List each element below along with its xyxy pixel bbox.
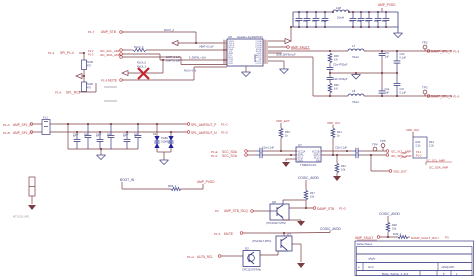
- svg-text:SDA2: SDA2: [313, 154, 320, 157]
- svg-text:C2d: C2d: [400, 52, 405, 56]
- svg-text:R48: R48: [392, 223, 397, 227]
- svg-text:TP5: TP5: [380, 139, 386, 143]
- svg-text:P1-B: P1-B: [3, 131, 10, 135]
- svg-text:VDD_3v3: VDD_3v3: [406, 128, 419, 132]
- svg-text:2.2k: 2.2k: [416, 144, 422, 148]
- svg-text:R46: R46: [334, 83, 339, 87]
- svg-text:C34: C34: [365, 19, 370, 23]
- svg-text:SPI_P1-4: SPI_P1-4: [60, 51, 74, 55]
- svg-text:(75C19117,MTN): (75C19117,MTN): [266, 221, 286, 225]
- svg-text:P1-4: P1-4: [48, 51, 55, 55]
- svg-text:AMP_SPL_P: AMP_SPL_P: [13, 123, 32, 127]
- svg-text:R43: R43: [416, 140, 421, 144]
- svg-text:I2C_SDA_AMP: I2C_SDA_AMP: [429, 166, 448, 170]
- svg-text:P1-7: P1-7: [88, 30, 95, 34]
- svg-text:P1-A: P1-A: [3, 123, 10, 127]
- svg-text:1uF: 1uF: [382, 19, 387, 23]
- svg-text:P1-H: P1-H: [187, 255, 194, 259]
- svg-text:SCL2: SCL2: [314, 158, 320, 160]
- svg-text:D1: D1: [153, 132, 157, 136]
- svg-text:VCC1A: VCC1A: [298, 151, 306, 154]
- svg-text:COGIC_AVDD: COGIC_AVDD: [298, 176, 320, 180]
- svg-text:DAMP_SPL_P: DAMP_SPL_P: [431, 50, 452, 54]
- svg-text:P1-D: P1-D: [221, 131, 229, 135]
- svg-text:GND: GND: [298, 161, 303, 163]
- svg-text:SCL1: SCL1: [298, 158, 304, 160]
- svg-text:VCC1B: VCC1B: [312, 152, 320, 154]
- svg-text:R49_2: R49_2: [393, 232, 402, 236]
- svg-text:VDD_3v3: VDD_3v3: [327, 121, 340, 125]
- svg-text:P1-C: P1-C: [221, 123, 229, 127]
- svg-text:R47: R47: [310, 191, 315, 195]
- svg-text:CPC1017N?Mfa: CPC1017N?Mfa: [242, 268, 261, 272]
- svg-text:TP2: TP2: [422, 41, 428, 45]
- svg-text:AMP_PVDD: AMP_PVDD: [197, 180, 215, 184]
- svg-text:L8: L8: [352, 89, 356, 93]
- svg-text:Header+1(pRefPAD): Header+1(pRefPAD): [237, 35, 263, 39]
- svg-text:SDA1: SDA1: [298, 154, 305, 157]
- svg-text:AMP_STB_RCQ: AMP_STB_RCQ: [224, 209, 248, 213]
- svg-text:6.8: 6.8: [334, 58, 338, 62]
- svg-text:TP4: TP4: [372, 143, 378, 147]
- svg-text:P1-8: P1-8: [453, 49, 460, 53]
- svg-text:MUTE: MUTE: [224, 232, 233, 236]
- svg-text:P2: P2: [215, 209, 219, 213]
- svg-text:Q6: Q6: [272, 200, 276, 204]
- svg-text:AU75_RCL: AU75_RCL: [197, 255, 213, 259]
- svg-text:0.1uF: 0.1uF: [400, 91, 407, 95]
- svg-text:AMP_STB: AMP_STB: [101, 30, 116, 34]
- svg-text:MTG125_NP1: MTG125_NP1: [13, 215, 30, 219]
- svg-text:P1-5: P1-5: [214, 232, 221, 236]
- svg-text:BOOT_IN: BOOT_IN: [120, 178, 135, 182]
- svg-text:50V: 50V: [107, 134, 112, 137]
- svg-text:I2C_SDA_AMP: I2C_SDA_AMP: [100, 53, 121, 57]
- svg-text:COGIC_AVDD: COGIC_AVDD: [320, 227, 342, 231]
- svg-text:22pF: 22pF: [73, 134, 79, 137]
- svg-text:010603: 010603: [161, 140, 170, 144]
- svg-text:C33: C33: [349, 19, 354, 23]
- svg-text:P1-2: P1-2: [416, 154, 422, 158]
- svg-text:C2c: C2c: [385, 51, 390, 55]
- svg-text:1uF: 1uF: [385, 55, 390, 59]
- svg-text:R02_2: R02_2: [168, 184, 177, 188]
- svg-text:50V: 50V: [134, 134, 139, 137]
- svg-text:10uH: 10uH: [337, 16, 344, 20]
- svg-text:SPL_RC2: SPL_RC2: [66, 91, 80, 95]
- svg-text:P1-3: P1-3: [88, 53, 94, 57]
- svg-text:C2e: C2e: [385, 87, 390, 91]
- svg-text:R44: R44: [429, 140, 434, 144]
- svg-text:GND8: GND8: [253, 54, 257, 62]
- svg-text:+RsQze8n: +RsQze8n: [441, 265, 455, 269]
- svg-text:10k: 10k: [341, 168, 346, 172]
- svg-text:470: 470: [87, 86, 92, 90]
- svg-text:0.1uF: 0.1uF: [400, 56, 407, 60]
- svg-text:10M?_0.1uF: 10M?_0.1uF: [166, 60, 181, 63]
- svg-text:AMP_PVDD: AMP_PVDD: [378, 3, 396, 7]
- svg-text:Q7: Q7: [287, 233, 291, 237]
- svg-text:SPL_AMPOUT_N: SPL_AMPOUT_N: [191, 131, 217, 135]
- svg-text:P1-F: P1-F: [211, 154, 218, 158]
- svg-text:R40: R40: [285, 130, 290, 134]
- svg-text:SPL_AMPOUT_P: SPL_AMPOUT_P: [191, 123, 216, 127]
- svg-text:AMP_SPL_N: AMP_SPL_N: [13, 131, 32, 135]
- svg-text:U8: U8: [228, 35, 232, 39]
- svg-text:P1-9: P1-9: [453, 94, 460, 98]
- svg-text:1uF: 1uF: [303, 19, 308, 23]
- svg-text:TH48: TH48: [87, 82, 94, 86]
- svg-text:1uF: 1uF: [357, 19, 362, 23]
- svg-text:70uH: 70uH: [352, 55, 359, 59]
- svg-text:OUTD: OUTD: [255, 63, 262, 65]
- svg-text:2.2k: 2.2k: [429, 144, 435, 148]
- svg-text:I2S8_DKFB+1uF: I2S8_DKFB+1uF: [276, 53, 296, 57]
- svg-text:1uF: 1uF: [385, 91, 390, 95]
- svg-text:Brida_TexFile_3_d13: Brida_TexFile_3_d13: [382, 272, 409, 276]
- svg-text:VDD_EXT: VDD_EXT: [276, 119, 290, 123]
- svg-text:L7: L7: [352, 44, 356, 48]
- svg-text:MUTE: MUTE: [108, 79, 117, 83]
- svg-text:R45: R45: [334, 54, 339, 58]
- svg-text:6.8: 6.8: [334, 87, 338, 91]
- svg-text:C2a 4700pF: C2a 4700pF: [333, 63, 348, 67]
- svg-text:AMP_FAULT: AMP_FAULT: [355, 236, 373, 240]
- svg-text:R41: R41: [337, 130, 342, 134]
- svg-text:(75v19117,MTN): (75v19117,MTN): [252, 239, 271, 243]
- svg-text:uAgfn: uAgfn: [368, 257, 376, 261]
- svg-text:Variant Name: Variant Name: [357, 242, 373, 246]
- svg-text:TS5E103-D1: TS5E103-D1: [300, 163, 317, 167]
- svg-text:C2b 0.1uF: C2b 0.1uF: [335, 146, 348, 150]
- svg-text:DAMP_STB: DAMP_STB: [317, 207, 334, 211]
- svg-text:C2b 4700pF: C2b 4700pF: [333, 77, 348, 81]
- svg-text:DAMP_FAULT_RCU: DAMP_FAULT_RCU: [411, 236, 439, 240]
- svg-text:TH48: TH48: [87, 60, 94, 64]
- svg-text:RxCh_0: RxCh_0: [137, 62, 147, 65]
- svg-text:TP3: TP3: [422, 86, 428, 90]
- svg-text:22pF: 22pF: [123, 134, 129, 137]
- svg-text:_AMP: _AMP: [399, 155, 407, 159]
- svg-text:C2a 0.1uF: C2a 0.1uF: [262, 146, 275, 150]
- svg-text:RxCh_0: RxCh_0: [134, 45, 144, 49]
- svg-text:GVD: GVD: [229, 63, 234, 65]
- svg-text:PGB1: PGB1: [161, 136, 168, 140]
- svg-text:50V: 50V: [84, 134, 89, 137]
- svg-text:10k: 10k: [392, 227, 397, 231]
- svg-text:22pF: 22pF: [96, 134, 102, 137]
- svg-text:1uF: 1uF: [374, 19, 379, 23]
- svg-text:P1-2: P1-2: [88, 49, 94, 53]
- svg-text:SCC_SCA: SCC_SCA: [222, 154, 238, 158]
- svg-text:U7: U7: [298, 143, 302, 147]
- svg-text:RxCh 4.7k: RxCh 4.7k: [184, 69, 197, 73]
- svg-text:C31: C31: [312, 19, 317, 23]
- svg-text:Gczr: Gczr: [368, 265, 374, 269]
- svg-text:22uF: 22uF: [321, 19, 327, 23]
- svg-text:470: 470: [87, 64, 92, 68]
- svg-text:P3: P3: [445, 236, 449, 240]
- svg-text:D2: D2: [245, 247, 249, 251]
- svg-text:R42: R42: [341, 164, 346, 168]
- svg-text:P1-G: P1-G: [339, 207, 347, 211]
- svg-text:VBAT+0.1uF: VBAT+0.1uF: [199, 45, 214, 49]
- svg-text:C30: C30: [295, 19, 300, 23]
- svg-text:5_DKFB_+10v: 5_DKFB_+10v: [189, 56, 207, 60]
- svg-text:DAMP_SPL_N: DAMP_SPL_N: [431, 95, 453, 99]
- svg-text:VDD_EXT: VDD_EXT: [393, 170, 407, 174]
- svg-text:L08: L08: [336, 6, 341, 10]
- svg-text:10k: 10k: [310, 195, 315, 199]
- svg-text:P1-1: P1-1: [416, 150, 422, 154]
- svg-text:_AMP: _AMP: [399, 151, 407, 155]
- svg-text:RxCh_2: RxCh_2: [164, 28, 175, 32]
- svg-text:COGIC_AVDD: COGIC_AVDD: [379, 212, 401, 216]
- svg-text:P1-5: P1-5: [101, 79, 108, 83]
- svg-text:C2f: C2f: [400, 87, 404, 91]
- svg-text:EN: EN: [316, 161, 320, 163]
- svg-text:FL1: FL1: [43, 116, 48, 120]
- svg-text:70uH: 70uH: [352, 100, 359, 104]
- svg-text:P1-6: P1-6: [55, 91, 62, 95]
